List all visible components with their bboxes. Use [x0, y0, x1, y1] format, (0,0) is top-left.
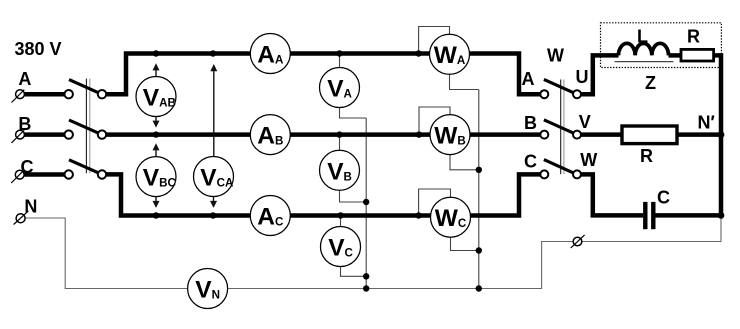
svg-text:V: V — [579, 112, 591, 132]
svg-text:C: C — [21, 157, 34, 177]
svg-text:Z: Z — [645, 73, 656, 93]
svg-text:R: R — [687, 26, 700, 46]
svg-text:N′: N′ — [698, 112, 715, 132]
svg-text:C: C — [524, 151, 537, 171]
svg-text:B: B — [524, 113, 537, 133]
svg-text:A: A — [18, 69, 31, 89]
svg-text:R: R — [640, 146, 653, 166]
svg-text:W: W — [547, 46, 564, 66]
svg-text:L: L — [637, 26, 648, 46]
svg-text:A: A — [522, 69, 535, 89]
svg-text:U: U — [576, 67, 589, 87]
svg-text:W: W — [580, 150, 597, 170]
svg-text:380 V: 380 V — [15, 39, 62, 59]
svg-text:C: C — [657, 188, 670, 208]
svg-text:B: B — [18, 114, 31, 134]
svg-text:N: N — [24, 197, 37, 217]
